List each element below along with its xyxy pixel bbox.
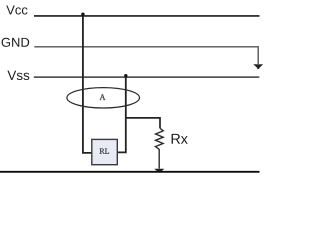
label RL [100, 149, 110, 154]
label Vss [7, 71, 29, 80]
ammeter A ellipse [67, 88, 140, 108]
resistor RL box [92, 139, 118, 164]
stub below GND arrow tip [257, 68, 259, 69]
junction dot on Vss rail at vertical wire [124, 74, 127, 77]
resistor Rx zigzag [155, 128, 163, 168]
wire Vss rail [34, 76, 259, 78]
arrowhead GND down arrow [253, 64, 263, 68]
wire GND rail with corner down at right [34, 47, 258, 64]
label Rx [172, 134, 188, 144]
ground plane bottom line [0, 171, 260, 173]
junction dot on Vcc rail at vertical wire [81, 13, 84, 16]
wire branch from vertical to resistor Rx [126, 118, 160, 128]
wire Vcc rail [34, 15, 260, 17]
arrowhead Rx ground arrow [154, 169, 164, 173]
label Vcc [6, 6, 27, 15]
label A (ammeter) [100, 94, 106, 100]
wire vertical from Vss rail down to RL box right lead [117, 77, 125, 152]
label GND [2, 38, 30, 47]
wire vertical from Vcc rail down to RL box left lead [83, 16, 92, 153]
